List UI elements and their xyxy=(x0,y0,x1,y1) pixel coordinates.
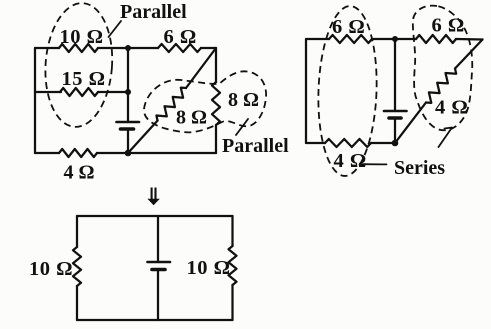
wire: top rail 6 ohm to right corner xyxy=(201,47,216,49)
wire: bottom circuit left rail upper xyxy=(76,216,78,247)
dashed ellipse: Parallel group 10 and 15 ohm xyxy=(41,1,116,129)
resistor 10 ohm (left circuit top-left) xyxy=(59,44,98,52)
svg-text:4 Ω: 4 Ω xyxy=(435,97,468,119)
wire: left circuit top rail left segment xyxy=(35,47,59,49)
wire: center vertical to battery xyxy=(127,92,129,122)
wire: bottom circuit center vertical top xyxy=(157,216,159,262)
svg-text:8 Ω: 8 Ω xyxy=(228,89,259,111)
dashed blob: Parallel group 8 and 8 ohm xyxy=(144,71,266,132)
wire: diagonal lower segment (right circuit) xyxy=(395,103,426,144)
arrow: double down-arrow between circuits xyxy=(152,188,156,200)
battery B3 short plate (bottom circuit) xyxy=(152,268,165,272)
resistor 10 ohm (bottom circuit left) xyxy=(73,247,81,286)
wire: top rail to right corner xyxy=(456,38,483,41)
pointer line from Series label to right blob xyxy=(439,128,453,148)
wire: bottom circuit right rail upper xyxy=(231,216,233,246)
svg-text:Series: Series xyxy=(394,157,445,179)
wire: top rail to center node xyxy=(372,38,395,40)
battery B3 long plate (bottom circuit) xyxy=(148,261,171,264)
resistor 10 ohm (bottom circuit right) xyxy=(229,246,237,285)
wire: bottom rail right segment xyxy=(97,152,216,154)
resistor 4 ohm (left circuit bottom) xyxy=(59,149,97,157)
wire: right circuit left rail xyxy=(305,39,307,143)
node: left circuit middle xyxy=(125,89,131,95)
battery B1 short plate (left circuit) xyxy=(121,127,134,131)
wire: right circuit bottom rail left segment xyxy=(306,142,325,144)
battery B2 long plate (right circuit) xyxy=(384,110,407,113)
svg-text:Parallel: Parallel xyxy=(120,1,187,23)
wire: middle rail left segment xyxy=(35,91,61,93)
dashed ellipse: Series group 6 and 4 ohm (left, right circuit) xyxy=(316,5,380,177)
wire: right circuit top rail left segment xyxy=(306,38,329,40)
wire: right rail lower segment xyxy=(215,125,217,153)
svg-text:10 Ω: 10 Ω xyxy=(29,258,73,280)
resistor 4 ohm (right circuit bottom) xyxy=(325,139,371,147)
wire: bottom circuit right rail lower xyxy=(231,285,233,320)
wire: diagonal upper segment xyxy=(186,48,216,88)
node: right circuit top xyxy=(392,36,398,42)
svg-text:6 Ω: 6 Ω xyxy=(332,16,365,38)
svg-text:10 Ω: 10 Ω xyxy=(60,26,104,48)
svg-text:6 Ω: 6 Ω xyxy=(164,26,197,48)
svg-text:8 Ω: 8 Ω xyxy=(176,107,207,129)
wire: bottom circuit top rail xyxy=(77,215,233,217)
wire: top rail node to second 6 ohm xyxy=(395,38,416,40)
wire: right circuit center vertical top xyxy=(394,39,396,111)
resistor 4 ohm diagonal (right circuit) xyxy=(426,69,456,103)
wire: center vertical top xyxy=(127,48,129,92)
wire: bottom circuit bottom rail xyxy=(77,319,233,321)
pointer line from 8-ohm blob to bottom Parallel label xyxy=(236,119,248,135)
node: left circuit top xyxy=(125,45,131,51)
wire: top rail node to 6 ohm xyxy=(128,47,158,49)
node: right circuit bottom xyxy=(392,140,399,147)
wire: battery to bottom node xyxy=(127,129,129,153)
resistor 8 ohm vertical (left circuit right rail) xyxy=(212,82,220,125)
svg-text:15 Ω: 15 Ω xyxy=(62,68,106,90)
svg-text:6 Ω: 6 Ω xyxy=(432,15,465,37)
wire: diagonal upper segment (right circuit) xyxy=(455,40,483,69)
svg-text:10 Ω: 10 Ω xyxy=(187,257,231,279)
wire: middle rail to center node xyxy=(98,91,128,93)
wire: right rail upper segment xyxy=(215,48,217,82)
resistor 6 ohm (right circuit top-left) xyxy=(329,35,372,43)
battery B2 short plate (right circuit) xyxy=(389,116,401,120)
node: left circuit bottom xyxy=(125,150,132,157)
resistor 6 ohm (left circuit top-right) xyxy=(158,44,201,52)
wire: bottom rail left segment xyxy=(35,152,59,154)
battery B1 long plate (left circuit) xyxy=(117,121,140,124)
wire: battery to bottom rail (bottom circuit) xyxy=(157,270,159,321)
svg-text:4 Ω: 4 Ω xyxy=(334,150,367,172)
resistor 8 ohm diagonal (left circuit) xyxy=(156,88,186,121)
wire: bottom circuit left rail lower xyxy=(76,286,78,320)
svg-text:4 Ω: 4 Ω xyxy=(64,162,95,184)
wire: bottom rail to node xyxy=(371,142,395,144)
resistor 15 ohm (left circuit middle) xyxy=(60,88,98,96)
svg-text:Parallel: Parallel xyxy=(222,135,289,157)
wire: top rail between 10 ohm and node xyxy=(98,47,128,49)
resistor 6 ohm (right circuit top-right) xyxy=(416,35,456,43)
dashed blob: Series group 6 and 4 ohm (right, right circuit) xyxy=(413,6,472,131)
pointer line from left series ellipse to Series label xyxy=(360,163,387,165)
wire: left circuit left rail xyxy=(34,48,36,153)
pointer line from top Parallel label to ellipse xyxy=(109,21,122,37)
wire: battery to bottom node (right circuit) xyxy=(394,118,396,143)
wire: diagonal lower segment xyxy=(128,121,158,153)
